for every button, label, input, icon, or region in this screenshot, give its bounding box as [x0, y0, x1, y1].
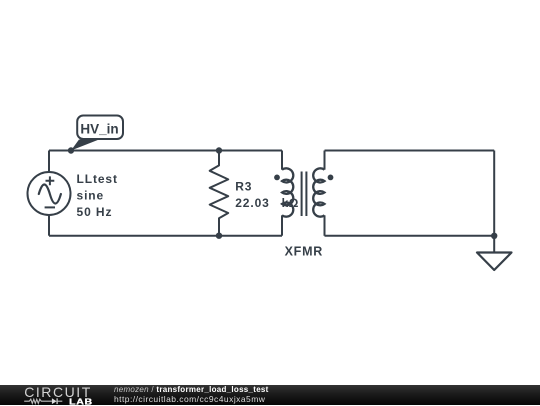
ground symbol: [477, 253, 512, 271]
footer url line: [114, 395, 265, 404]
wire secondary right vertical: [493, 151, 495, 236]
transformer secondary phase dot: [328, 175, 334, 181]
node HV_in flag pointer: [71, 140, 99, 151]
wire bottom rail (primary return): [49, 235, 282, 237]
resistor R3: [210, 151, 229, 236]
transformer primary phase dot: [274, 175, 280, 181]
transformer XFMR primary winding: [282, 151, 293, 236]
junction R3 bottom: [216, 233, 222, 239]
junction HV_in node: [68, 147, 74, 153]
wire source bottom lead: [48, 215, 50, 236]
node HV_in flag box: [77, 116, 123, 140]
svg-text:HV_in: HV_in: [80, 122, 118, 137]
wire secondary bottom rail: [325, 235, 495, 237]
svg-text:XFMR: XFMR: [285, 244, 323, 258]
voltage source V1 (LLtest sine 50 Hz): [28, 172, 71, 215]
CircuitLab logo: [20, 385, 98, 406]
svg-text:sine: sine: [77, 189, 105, 203]
wire ground lead: [493, 236, 495, 253]
svg-text:R3: R3: [235, 180, 252, 194]
transformer XFMR secondary winding: [313, 151, 324, 236]
svg-text:kΩ: kΩ: [282, 196, 299, 210]
junction ground node: [491, 233, 497, 239]
wire secondary top rail: [325, 150, 495, 152]
footer bar: [0, 385, 540, 406]
svg-text:LAB: LAB: [69, 397, 93, 406]
transformer core: [302, 172, 307, 217]
svg-text:50 Hz: 50 Hz: [77, 205, 113, 219]
svg-text:22.03: 22.03: [235, 196, 270, 210]
wire top rail (HV_in net): [49, 150, 282, 152]
svg-text:LLtest: LLtest: [77, 172, 118, 186]
footer title line: [114, 385, 269, 394]
wire source top lead: [48, 151, 50, 173]
junction R3 top: [216, 147, 222, 153]
